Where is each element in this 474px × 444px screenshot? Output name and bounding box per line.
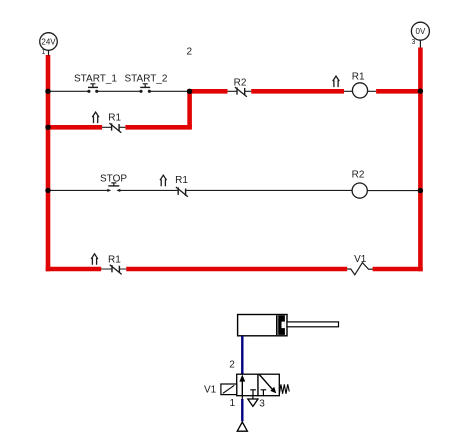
node latch junction (187, 89, 192, 94)
wire rung2 red segment contact to latch riser (125, 125, 191, 130)
wire rung4 left red segment (46, 267, 101, 272)
contact STOP (pushbutton) (100, 174, 127, 193)
valve return spring (279, 384, 289, 394)
pneumatic tube cylinder to valve port 2 (blue) (241, 336, 243, 374)
actuated-state arrow (contact R1 rung3) (160, 175, 167, 186)
node rung1 / left rail (45, 89, 50, 94)
valve blocked port 1 (right box T) (261, 390, 267, 396)
svg-text:R1: R1 (108, 255, 121, 266)
svg-text:STOP: STOP (100, 174, 127, 185)
contact R2 (break contact, closed) (228, 78, 252, 97)
contact R1 rung3 (break contact, open) (175, 175, 188, 197)
node rung2 / left rail (45, 125, 50, 130)
relay coil R2 (352, 170, 368, 199)
power source 0V (411, 22, 429, 47)
valve V1 left box (actuated position) (237, 374, 258, 396)
valve port 3 stub (252, 396, 254, 399)
svg-text:0V: 0V (416, 27, 426, 36)
valve flow path 1-2 (open, arrow up) (239, 375, 245, 396)
contact START_1 (NO pushbutton) (74, 74, 117, 93)
actuated-state arrow (coil R1) (333, 76, 340, 87)
wire left supply rail (red, energized) (46, 55, 51, 271)
contact R1 rung4 (make contact, closed) (101, 255, 126, 275)
svg-text:V1: V1 (204, 384, 217, 395)
cylinder piston rod (287, 322, 339, 327)
svg-text:1: 1 (230, 398, 236, 409)
node rung3 / left rail (45, 188, 50, 193)
svg-text:R2: R2 (352, 170, 365, 181)
pneumatic tube valve port 1 to supply (blue) (241, 399, 243, 421)
wire rung1 red segment coil to rail (376, 89, 420, 94)
svg-text:2: 2 (229, 360, 235, 371)
compressed air supply symbol (237, 422, 247, 431)
wire rung2 red segment rail to contact (46, 125, 102, 130)
wire rung3 black line right part (186, 189, 418, 191)
svg-text:R1: R1 (352, 72, 365, 83)
valve blocked port 3 (left box T) (250, 390, 256, 396)
wire rung3 black line left part (48, 189, 178, 191)
relay coil R1 (344, 72, 376, 99)
svg-text:2: 2 (187, 47, 193, 58)
node rung1 / right rail (418, 88, 423, 93)
svg-text:3: 3 (259, 398, 265, 409)
svg-text:R1: R1 (175, 175, 188, 186)
wire latch riser (red) (187, 91, 192, 127)
svg-text:3: 3 (412, 39, 416, 46)
valve V1 right box (rest position) (258, 374, 279, 396)
svg-text:V1: V1 (354, 254, 367, 265)
actuated-state arrow (contact R1 rung4) (91, 254, 98, 265)
svg-text:1: 1 (42, 49, 46, 56)
valve exhaust path 2-3 (right box diagonal arrow) (259, 375, 276, 394)
wire rung1 red segment R2 to coil (251, 89, 344, 94)
exhaust port 3 symbol (248, 399, 258, 406)
contact R1 rung2 (make contact, closed / latch) (102, 113, 125, 133)
wire rung4 right red segment (373, 267, 423, 272)
wire rung1 black segments (de-energized through start buttons) (48, 90, 190, 92)
svg-text:24V: 24V (41, 37, 56, 46)
valve solenoid pilot box (221, 384, 237, 395)
valve port 1 stub (241, 396, 243, 399)
cylinder piston (277, 315, 285, 335)
contact START_2 (NO pushbutton) (125, 74, 168, 93)
wire rung4 middle red segment (126, 267, 347, 272)
svg-text:START_2: START_2 (125, 74, 168, 85)
valve solenoid V1 (zigzag) (347, 254, 372, 275)
wire right 0V rail (red, energized) (418, 48, 423, 272)
actuated-state arrow (contact R1 rung2) (92, 112, 99, 123)
svg-text:START_1: START_1 (74, 74, 117, 85)
svg-text:R2: R2 (234, 78, 247, 89)
power source 24V (40, 33, 58, 56)
svg-text:R1: R1 (108, 113, 121, 124)
cylinder body (238, 315, 287, 336)
node rung3 / right rail (418, 188, 423, 193)
wire rung1 red segment junction to R2 contact (187, 89, 227, 94)
